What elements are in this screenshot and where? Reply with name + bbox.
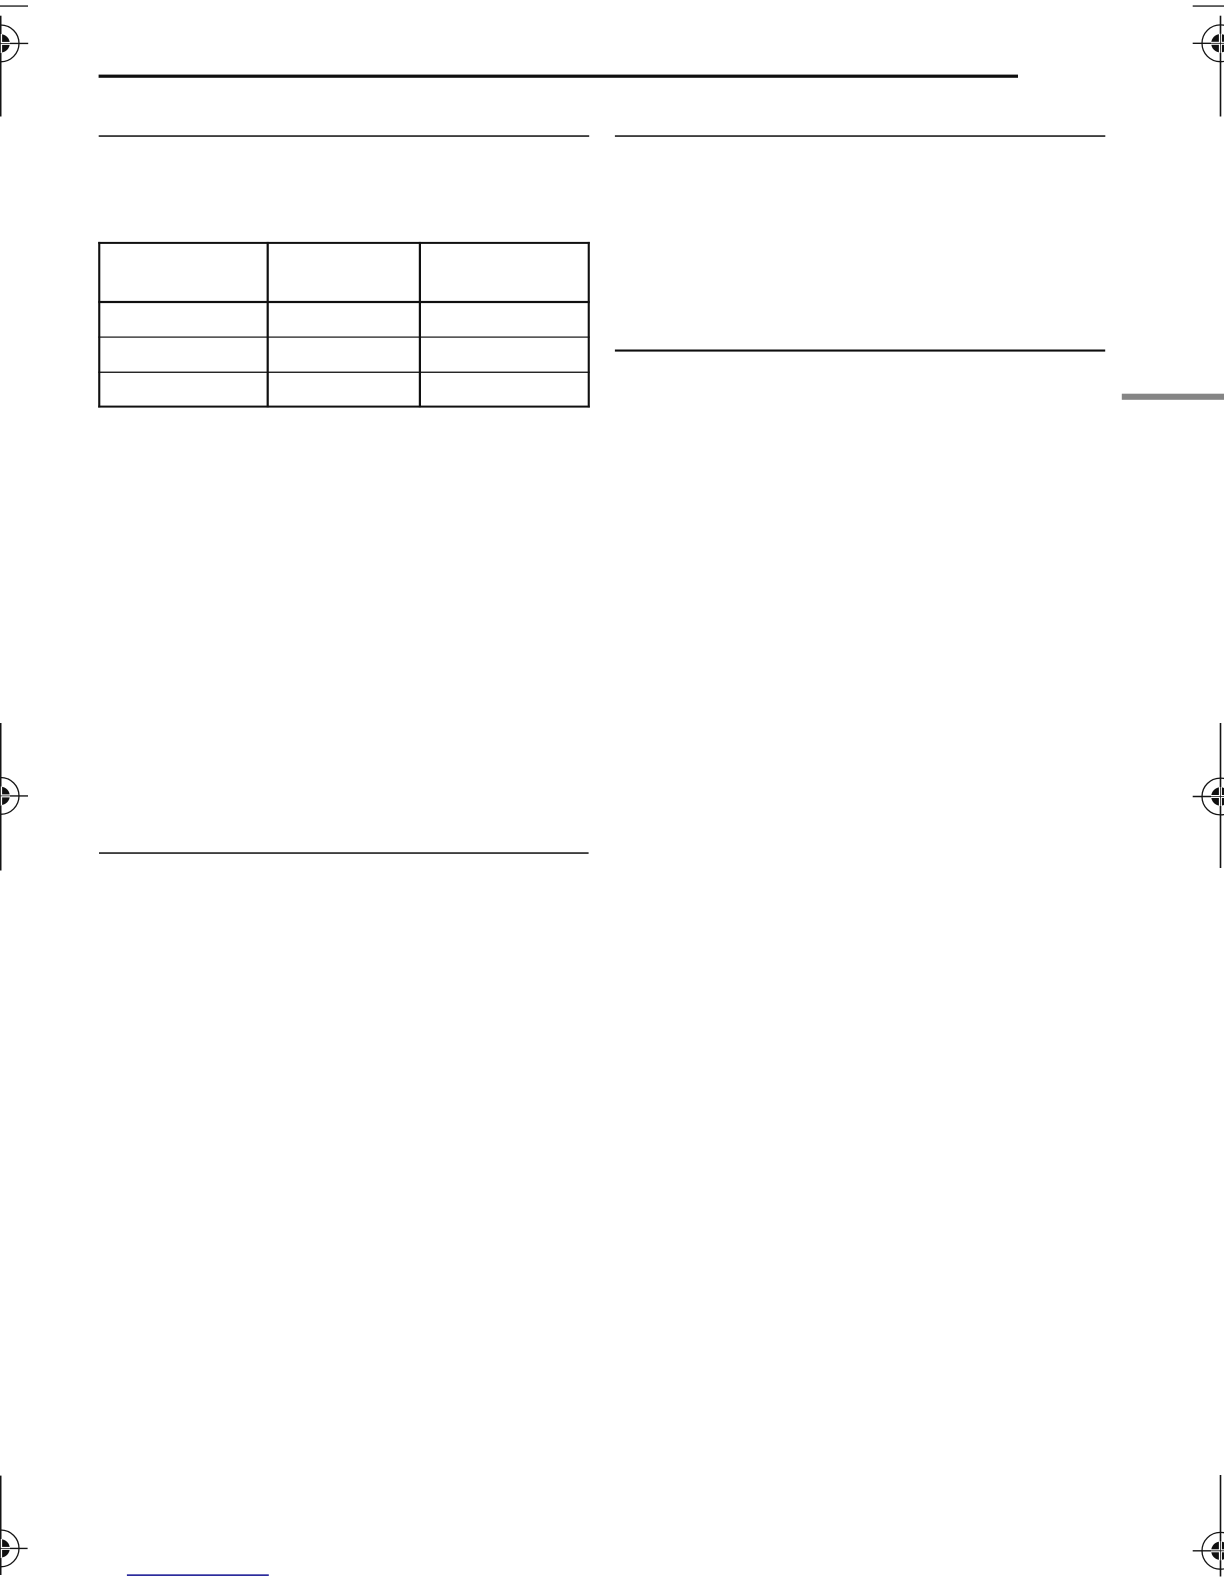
right column thin rule 1	[615, 135, 1105, 137]
registration mark middle-left	[0, 723, 28, 871]
bottom blue rule	[127, 1574, 269, 1576]
table outer left border	[98, 242, 100, 408]
table column separator 1	[267, 242, 269, 408]
table outer right border	[588, 242, 590, 408]
registration mark bottom-right	[1193, 1475, 1224, 1577]
table outer top border	[98, 242, 590, 244]
left column thin rule 1	[99, 135, 590, 137]
trim mark top-right horizontal	[1193, 5, 1224, 6]
table row separator 2	[98, 372, 590, 373]
table row separator 1	[98, 337, 590, 338]
section tab gray bar right edge	[1122, 394, 1224, 400]
top heavy rule	[99, 75, 1018, 78]
registration mark bottom-left	[0, 1476, 28, 1575]
table column separator 2	[419, 242, 421, 408]
registration mark middle-right	[1193, 723, 1224, 868]
table header separator	[98, 301, 590, 303]
left column thin rule 2	[99, 852, 589, 854]
registration mark top-right	[1193, 16, 1224, 117]
trim mark top-left horizontal	[0, 5, 28, 6]
table	[98, 242, 590, 408]
registration mark top-left	[0, 16, 28, 117]
right column rule 2	[615, 350, 1105, 352]
table outer bottom border	[98, 406, 590, 408]
